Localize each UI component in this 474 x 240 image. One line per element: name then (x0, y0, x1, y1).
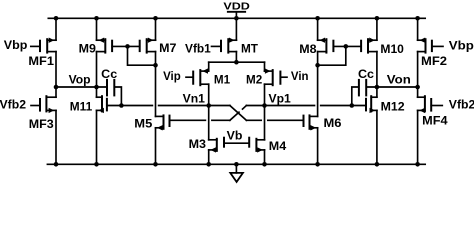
junction node Vp1 (262, 103, 267, 108)
net label VDD (223, 2, 250, 13)
svg-text:Vbp: Vbp (4, 38, 28, 52)
capacitor Cc (right) (352, 80, 366, 106)
junction ground rail / M4 (262, 162, 267, 167)
junction Vop / MF1-MF3 (54, 85, 59, 90)
junction ground rail / M6 (315, 162, 320, 167)
label MF1 (28, 54, 54, 68)
label M6 (324, 116, 342, 130)
wire M8 gate-drain diode connection (318, 46, 346, 65)
svg-text:MF3: MF3 (29, 117, 54, 131)
junction VDD rail / M8 (315, 16, 320, 21)
junction ground rail / M3 (206, 162, 211, 167)
wire M3 source riser (208, 150, 210, 164)
value label Cc (left) (101, 67, 117, 81)
svg-text:M3: M3 (189, 137, 207, 151)
label M5 (134, 117, 152, 131)
svg-text:M2: M2 (246, 73, 263, 87)
label M11 (70, 100, 93, 114)
transistor M6 (304, 115, 318, 130)
pin label Vbp (right) (449, 39, 474, 53)
junction VDD rail / M9 (94, 16, 99, 21)
wire M1 source riser (208, 62, 210, 71)
svg-text:Vop: Vop (69, 72, 91, 86)
wire MF3 source riser (55, 110, 57, 164)
junction Von / MF2-MF4 (415, 85, 420, 90)
wire M8 source riser (317, 18, 319, 40)
junction ground rail / MF4 (415, 162, 420, 167)
wire MT source riser (235, 18, 237, 40)
transistor MF2 (418, 38, 443, 53)
wire ground rail (47, 163, 425, 165)
junction M9-M7 gate net (125, 44, 130, 49)
wire MF4 source riser (417, 110, 419, 164)
wire M7-M5 column (155, 52, 157, 117)
svg-text:VDD: VDD (223, 2, 250, 13)
transistor MT (212, 38, 237, 53)
pin label Vfb2 (right) (449, 97, 474, 111)
wire Vop net (56, 86, 106, 88)
wire M2 source riser (264, 62, 266, 71)
svg-text:Vin: Vin (291, 69, 309, 83)
transistor MF3 (31, 96, 56, 113)
wire Vp1 riser to M4 (264, 106, 266, 140)
junction tail node (234, 60, 239, 65)
label M3 (189, 137, 207, 151)
junction ground rail / MF3 (54, 162, 59, 167)
wire MF1-MF3 column (55, 52, 57, 98)
pin label Vip (163, 69, 181, 83)
transistor M1 (186, 68, 209, 85)
transistor M9 (97, 38, 113, 53)
svg-text:Von: Von (387, 72, 411, 86)
wire Vp1 net (right, hops M8-M6 column) (265, 105, 352, 107)
junction node Vn1 (206, 103, 211, 108)
transistor MF1 (31, 38, 56, 53)
wire cross diagonal M5-Vp1 (broken at crossover) (230, 106, 247, 121)
power VDD terminal (228, 12, 245, 18)
svg-text:MF2: MF2 (421, 54, 447, 68)
junction Vop / M9-M11 (94, 85, 99, 90)
ground (230, 164, 243, 182)
junction ground rail / M11 (94, 162, 99, 167)
wire M5 gate to cross (lower left arm, hops Vn1 riser) (170, 119, 230, 121)
svg-text:M6: M6 (324, 116, 342, 130)
pin label Vbp (left) (4, 38, 28, 52)
wire cross to Vp1 (upper right arm) (246, 105, 264, 107)
svg-text:Vfb2: Vfb2 (449, 97, 474, 111)
junction ground rail / M12 (375, 162, 380, 167)
svg-text:Vn1: Vn1 (183, 92, 206, 106)
label M12 (381, 100, 405, 114)
label M7 (159, 41, 177, 55)
svg-text:Vp1: Vp1 (269, 92, 292, 106)
svg-text:MF4: MF4 (422, 113, 448, 127)
wire M12 source riser (376, 110, 378, 164)
wire M9-M11 column (96, 52, 98, 98)
wire M7 gate-drain diode connection (128, 46, 156, 65)
junction M7 drain / M5 (153, 63, 158, 68)
svg-text:Vb: Vb (227, 128, 243, 142)
wire M11 gate lead (107, 105, 122, 107)
junction VDD rail / MT (234, 16, 239, 21)
junction ground rail / M5 (153, 162, 158, 167)
capacitor Cc (left) (107, 80, 121, 106)
junction Von / M10-M12 (375, 85, 380, 90)
label M10 (380, 42, 404, 56)
junction Cc / M12 gate (350, 103, 355, 108)
wire VDD rail (48, 17, 425, 19)
svg-text:Vip: Vip (163, 69, 181, 83)
pin label Vin (291, 69, 309, 83)
wire M1 drain riser (208, 84, 210, 105)
svg-text:M7: M7 (159, 41, 177, 55)
svg-text:M12: M12 (381, 100, 405, 114)
wire MF2 source riser (417, 18, 419, 40)
svg-text:Vbp: Vbp (449, 39, 474, 53)
transistor M11 (97, 96, 107, 113)
junction Cc / M11 gate (119, 103, 124, 108)
wire cross diagonal Vn1-M6 (230, 106, 247, 121)
wire M6 source riser (317, 128, 319, 165)
wire Von net (367, 86, 417, 88)
transistor M12 (366, 96, 377, 113)
wire tail node (209, 61, 265, 63)
label M8 (299, 42, 317, 56)
junction M8-M10 gate net (344, 44, 349, 49)
junction VDD rail / M7 (153, 16, 158, 21)
transistor M3 (209, 138, 224, 153)
wire M10 source riser (376, 18, 378, 40)
wire M2 drain riser (264, 84, 266, 105)
wire MT drain (235, 52, 237, 63)
wire M4 source riser (264, 150, 266, 164)
transistor MF4 (418, 96, 443, 113)
transistor M5 (156, 115, 170, 130)
net label Von (387, 72, 411, 86)
pin label Vfb1 (185, 41, 211, 55)
svg-text:Cc: Cc (101, 67, 117, 81)
transistor M8 (318, 38, 334, 53)
svg-text:Cc: Cc (358, 67, 374, 81)
net label Vn1 (183, 92, 206, 106)
svg-text:M5: M5 (134, 117, 152, 131)
svg-text:M11: M11 (70, 100, 93, 114)
pin label Vfb2 (left) (0, 97, 26, 111)
label M9 (79, 41, 97, 55)
transistor M2 (265, 68, 288, 85)
wire Vn1 net (left, hops M7-M5 column) (121, 105, 208, 107)
wire MF2-MF4 column (417, 52, 419, 98)
junction ground rail / gnd (234, 162, 239, 167)
wire Vn1 to cross (upper left arm) (209, 105, 230, 107)
label M4 (269, 139, 287, 153)
svg-text:MF1: MF1 (28, 54, 54, 68)
svg-text:M9: M9 (79, 41, 97, 55)
wire cross to M6 gate (lower right arm, hops Vp1 riser) (246, 119, 303, 121)
wire M11 source riser (96, 110, 98, 164)
net label Vp1 (269, 92, 292, 106)
svg-text:MT: MT (241, 41, 259, 55)
transistor M7 (140, 38, 156, 53)
svg-text:Vfb1: Vfb1 (185, 41, 211, 55)
wire MF1 source riser (55, 18, 57, 40)
wire M7 source riser (155, 18, 157, 40)
svg-text:M4: M4 (269, 139, 287, 153)
net label Vb (227, 128, 243, 142)
label MF4 (422, 113, 448, 127)
wire M8-M10 gate net (333, 45, 361, 47)
wire M5 source riser (155, 128, 157, 165)
junction VDD rail / MF1 (54, 16, 59, 21)
wire M9 source riser (96, 18, 98, 40)
value label Cc (right) (358, 67, 374, 81)
label MF3 (29, 117, 54, 131)
label MF2 (421, 54, 447, 68)
transistor M10 (361, 38, 377, 53)
svg-text:Vfb2: Vfb2 (0, 97, 26, 111)
junction VDD rail / MF2 (415, 16, 420, 21)
transistor M4 (249, 138, 264, 153)
svg-text:M10: M10 (380, 42, 404, 56)
label M1 (214, 73, 231, 87)
wire M10-M12 column (376, 52, 378, 98)
svg-text:M8: M8 (299, 42, 317, 56)
junction VDD rail / M10 (375, 16, 380, 21)
junction M8 drain / M6 (315, 63, 320, 68)
label MT (241, 41, 259, 55)
wire M9-M7 gate net (112, 45, 140, 47)
wire Vb net (224, 142, 249, 144)
label M2 (246, 73, 263, 87)
svg-text:M1: M1 (214, 73, 231, 87)
wire Vn1 riser to M3 (208, 106, 210, 140)
net label Vop (69, 72, 91, 86)
wire M12 gate lead (352, 105, 366, 107)
wire M8-M6 column (317, 52, 319, 117)
